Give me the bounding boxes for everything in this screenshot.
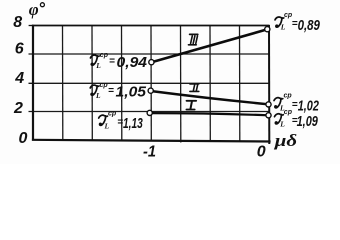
svg-text:L: L <box>104 121 110 130</box>
label JL=0,89 (III right) <box>275 12 320 34</box>
curve label I <box>186 101 196 110</box>
svg-text:=: = <box>108 86 114 97</box>
svg-text:0: 0 <box>257 144 266 161</box>
marker I right <box>266 113 271 118</box>
svg-text:2: 2 <box>13 100 23 117</box>
top border <box>32 25 270 27</box>
svg-text:μδ: μδ <box>274 131 298 150</box>
curve label III <box>189 34 198 44</box>
degree mark <box>40 3 44 7</box>
label JL=1,05 (II left) <box>90 82 147 101</box>
label JL=1,13 (I left) <box>99 110 143 132</box>
svg-text:4: 4 <box>14 70 24 87</box>
svg-text:0: 0 <box>19 130 28 147</box>
curve label II <box>190 84 199 92</box>
label JL=1,02 (II right) <box>274 92 319 114</box>
svg-text:0,94: 0,94 <box>117 55 148 71</box>
svg-text:cp: cp <box>100 52 109 59</box>
svg-text:L: L <box>95 91 101 100</box>
svg-text:L: L <box>280 23 286 32</box>
y-axis <box>32 25 34 141</box>
svg-text:L: L <box>95 61 101 70</box>
svg-text:=: = <box>109 56 115 67</box>
svg-text:6: 6 <box>15 41 24 58</box>
svg-text:1,09: 1,09 <box>297 114 318 130</box>
curve I <box>150 113 269 115</box>
svg-text:8: 8 <box>13 14 22 31</box>
svg-text:cp: cp <box>108 110 117 117</box>
horizontal gridlines <box>29 54 270 112</box>
marker I left <box>147 110 152 115</box>
svg-text:-1: -1 <box>143 144 156 161</box>
marker II left <box>148 88 153 93</box>
svg-text:φ: φ <box>29 0 39 19</box>
svg-text:1,13: 1,13 <box>123 116 143 132</box>
right border <box>268 25 270 144</box>
curve III <box>152 29 268 62</box>
y tick 8 <box>29 25 33 27</box>
svg-text:0,89: 0,89 <box>298 18 320 34</box>
x-axis <box>32 140 271 142</box>
svg-text:L: L <box>279 119 285 128</box>
svg-text:cp: cp <box>284 92 293 99</box>
label JL=0,94 (III left) <box>90 52 147 71</box>
marker III right <box>265 27 270 32</box>
curve II <box>151 91 269 104</box>
svg-text:1,05: 1,05 <box>116 85 147 101</box>
svg-text:1,02: 1,02 <box>298 99 319 115</box>
marker II right <box>266 102 271 107</box>
marker III left <box>149 60 154 65</box>
label JL=1,09 (I right) <box>275 109 318 130</box>
vertical gridlines <box>63 26 240 143</box>
